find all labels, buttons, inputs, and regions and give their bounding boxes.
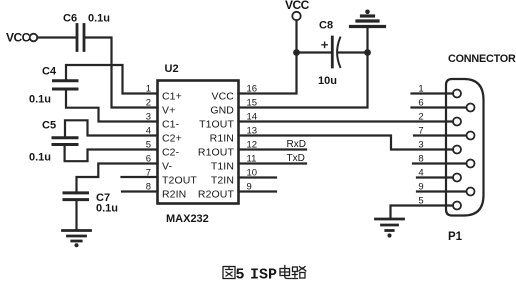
svg-text:C2+: C2+ bbox=[162, 132, 182, 144]
svg-text:7: 7 bbox=[418, 126, 423, 137]
wire pin7 T2OUT stub bbox=[122, 176, 158, 178]
svg-text:R2OUT: R2OUT bbox=[198, 188, 235, 200]
svg-text:R2IN: R2IN bbox=[162, 188, 186, 200]
node junction VCC bbox=[293, 49, 300, 56]
svg-text:C5: C5 bbox=[42, 120, 56, 132]
svg-text:8: 8 bbox=[418, 154, 423, 165]
svg-text:U2: U2 bbox=[165, 63, 179, 75]
wire connector pin 9 bbox=[417, 190, 466, 192]
wire pin16 VCC to junction bbox=[239, 53, 297, 94]
connector P1 shell bbox=[446, 53, 516, 243]
wire VCC to C6 bbox=[38, 36, 76, 38]
wire pin11 T1IN (TxD) bbox=[239, 153, 307, 164]
svg-text:C1-: C1- bbox=[162, 118, 180, 130]
wire connector pin 4 bbox=[417, 176, 453, 178]
svg-text:R1OUT: R1OUT bbox=[198, 146, 235, 158]
svg-text:4: 4 bbox=[146, 126, 151, 137]
svg-text:VCC: VCC bbox=[6, 31, 31, 45]
capacitor C6 bbox=[63, 13, 110, 51]
wire C4 bottom to pin3 C1- bbox=[66, 89, 158, 122]
node junction 2 bbox=[364, 49, 371, 56]
wire pin8 R2IN stub bbox=[122, 190, 158, 192]
node VCC (left terminal) bbox=[6, 31, 37, 45]
svg-text:V-: V- bbox=[162, 160, 173, 172]
wire C6 to pin2 V+ bbox=[86, 38, 158, 108]
capacitor C4 bbox=[29, 66, 77, 106]
svg-text:4: 4 bbox=[418, 168, 423, 179]
svg-text:T2IN: T2IN bbox=[211, 174, 234, 186]
glyph 电 bbox=[280, 266, 291, 279]
wire pin6 V- to C7 bbox=[77, 164, 158, 194]
node VCC (top terminal) bbox=[285, 0, 310, 53]
wire C4 top to pin1 C1+ bbox=[66, 65, 158, 94]
ground (below connector) bbox=[376, 219, 404, 238]
svg-text:5: 5 bbox=[236, 267, 245, 281]
svg-text:7: 7 bbox=[146, 168, 151, 179]
ground (inverted, top right of C8) bbox=[351, 10, 385, 53]
ground (below C7) bbox=[63, 231, 91, 248]
svg-text:2: 2 bbox=[146, 98, 151, 109]
wire pin14 T1OUT to connector pin 2 bbox=[239, 120, 454, 122]
svg-text:6: 6 bbox=[418, 98, 423, 109]
svg-text:C1+: C1+ bbox=[162, 90, 182, 102]
caption 图5 ISP电路 bbox=[223, 266, 306, 281]
glyph 图 bbox=[223, 267, 235, 279]
connector pin holes bbox=[453, 90, 475, 210]
svg-text:R1IN: R1IN bbox=[210, 132, 234, 144]
svg-text:8: 8 bbox=[146, 182, 151, 193]
svg-text:RxD: RxD bbox=[287, 139, 306, 150]
svg-text:T1OUT: T1OUT bbox=[199, 118, 234, 130]
wire C5 top to pin4 C2+ bbox=[65, 120, 158, 138]
pin numbers right 16-9 bbox=[247, 84, 258, 193]
svg-text:0.1u: 0.1u bbox=[88, 13, 110, 25]
connector pin numbers bbox=[418, 84, 423, 207]
svg-text:5: 5 bbox=[146, 140, 151, 151]
svg-text:0.1u: 0.1u bbox=[29, 152, 51, 164]
wire junction 2 to pin15 GND bbox=[239, 53, 368, 108]
svg-text:ISP: ISP bbox=[250, 267, 277, 281]
wire C8 to junction 2 bbox=[339, 51, 368, 53]
wire C5 bottom to pin5 C2- bbox=[65, 145, 158, 162]
svg-text:9: 9 bbox=[418, 182, 423, 193]
svg-text:C8: C8 bbox=[319, 20, 333, 32]
wire C7 to ground bbox=[75, 200, 77, 230]
svg-text:VCC: VCC bbox=[212, 90, 235, 102]
svg-text:10u: 10u bbox=[318, 75, 337, 87]
wire pin10 T2IN stub bbox=[239, 176, 277, 178]
capacitor C7 bbox=[64, 192, 118, 215]
wire pin12 R1OUT (RxD) bbox=[239, 139, 307, 150]
svg-text:0.1u: 0.1u bbox=[29, 94, 51, 106]
svg-text:CONNECTOR: CONNECTOR bbox=[448, 53, 516, 65]
wire connector pin 5 to ground bbox=[391, 206, 453, 218]
wire connector pin 6 bbox=[412, 106, 467, 108]
svg-text:V+: V+ bbox=[162, 104, 175, 116]
wire pin9 R2OUT stub bbox=[239, 190, 277, 192]
svg-text:1: 1 bbox=[418, 84, 423, 95]
IC U2 MAX232 bbox=[158, 63, 239, 225]
svg-text:P1: P1 bbox=[448, 231, 463, 243]
svg-text:2: 2 bbox=[418, 112, 423, 123]
svg-text:0.1u: 0.1u bbox=[96, 203, 118, 215]
svg-text:C4: C4 bbox=[42, 66, 57, 78]
svg-text:5: 5 bbox=[418, 196, 423, 207]
svg-text:C2-: C2- bbox=[162, 146, 180, 158]
svg-text:GND: GND bbox=[210, 104, 234, 116]
svg-text:T1IN: T1IN bbox=[211, 160, 234, 172]
pin numbers left 1-8 bbox=[146, 84, 151, 193]
svg-text:TxD: TxD bbox=[287, 153, 305, 164]
capacitor C8 (polarized) bbox=[318, 20, 340, 88]
wire connector pin 8 bbox=[413, 162, 466, 164]
svg-text:MAX232: MAX232 bbox=[166, 213, 209, 225]
wire connector pin 1 bbox=[412, 92, 454, 94]
wire junction to C8 bbox=[297, 51, 332, 53]
glyph 路 bbox=[292, 267, 306, 279]
svg-text:VCC: VCC bbox=[285, 0, 310, 12]
svg-text:T2OUT: T2OUT bbox=[162, 174, 197, 186]
svg-text:C6: C6 bbox=[63, 13, 77, 25]
svg-text:1: 1 bbox=[146, 84, 151, 95]
capacitor C5 bbox=[29, 120, 77, 164]
wire connector pin 7 bbox=[414, 134, 466, 136]
pin labels right column bbox=[198, 90, 235, 200]
svg-text:6: 6 bbox=[146, 154, 151, 165]
pin labels left column bbox=[162, 90, 197, 200]
svg-text:3: 3 bbox=[146, 112, 151, 123]
wire pin13 R1IN to connector pin 3 bbox=[239, 136, 454, 150]
svg-text:3: 3 bbox=[418, 140, 423, 151]
